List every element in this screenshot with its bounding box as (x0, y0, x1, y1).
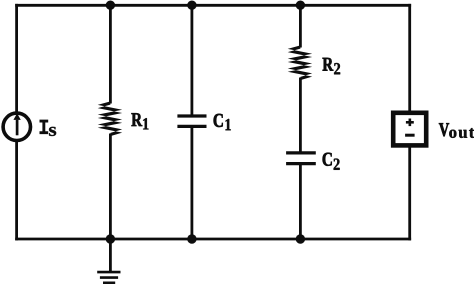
wire R1 branch top (109, 5, 112, 103)
junction dot top C1 (187, 1, 196, 10)
junction dot bottom C1 (187, 234, 196, 243)
label C1 (214, 114, 231, 130)
ground (97, 239, 120, 283)
capacitor C2 (286, 153, 316, 164)
wire right vertical upper (408, 4, 411, 112)
wire R1 branch bottom (109, 134, 112, 240)
junction dot top R1 (106, 1, 115, 10)
voltmeter box Vout (393, 113, 426, 146)
wire C1 branch top (190, 5, 193, 116)
current source Is (3, 113, 30, 140)
wire C2 branch bottom (299, 164, 302, 239)
capacitor C1 (177, 116, 206, 126)
wire R2 to C2 (299, 78, 302, 153)
wire right vertical lower (408, 147, 411, 241)
junction dot top R2 (296, 1, 305, 10)
label Is (40, 120, 57, 136)
wire R2C2 branch top (299, 5, 302, 47)
label R2 (323, 58, 341, 74)
wire left vertical upper (15, 4, 18, 112)
label C2 (323, 153, 340, 170)
wire top rail (15, 4, 411, 7)
wire C1 branch bottom (190, 126, 193, 239)
wire bottom rail (15, 238, 411, 241)
junction dot bottom R2 (296, 234, 305, 243)
resistor R2 (288, 45, 313, 80)
resistor R1 (98, 101, 123, 136)
label R1 (131, 113, 148, 129)
junction dot bottom R1 (106, 234, 115, 243)
wire left vertical lower (15, 142, 18, 241)
label Vout (439, 123, 474, 138)
